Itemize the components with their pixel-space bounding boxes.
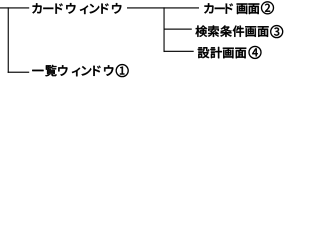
- badge: circled 2: [262, 2, 274, 14]
- node: 一覧ウィンドウ label: [32, 65, 113, 76]
- badge: circled 1: [116, 65, 128, 77]
- wire: branch to 検索条件画面: [164, 29, 192, 30]
- tree diagram: window/screen hierarchy: [0, 0, 293, 82]
- wire: root branch horizontal (left edge to カードウィンドウ): [0, 7, 29, 8]
- node: 検索条件画面 label: [195, 25, 268, 36]
- wire: left vertical trunk: [8, 7, 9, 73]
- node: カード画面 label: [204, 3, 259, 14]
- wire: branch to 設計画面: [164, 51, 194, 52]
- badge: circled 3: [271, 26, 283, 38]
- badge: circled 4: [249, 46, 261, 58]
- wire: branch to 一覧ウィンドウ: [8, 72, 30, 73]
- node: カードウィンドウ label: [32, 3, 121, 14]
- node: 設計画面 label: [198, 47, 246, 58]
- wire: right vertical trunk: [164, 7, 165, 52]
- wire: カードウィンドウ to child branches: [127, 7, 199, 8]
